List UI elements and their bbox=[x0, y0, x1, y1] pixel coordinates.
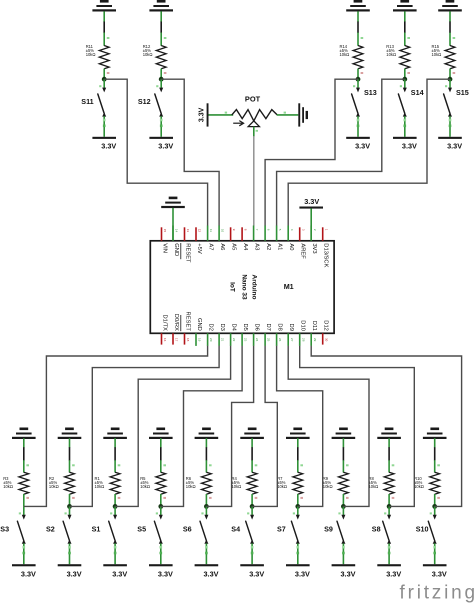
svg-text:21: 21 bbox=[221, 338, 225, 342]
svg-text:A0: A0 bbox=[288, 243, 294, 250]
svg-text:A1: A1 bbox=[276, 243, 282, 250]
svg-text:10kΩ: 10kΩ bbox=[143, 52, 153, 57]
svg-text:3.3V: 3.3V bbox=[402, 142, 417, 151]
svg-text:10kΩ: 10kΩ bbox=[186, 484, 196, 489]
svg-text:D5: D5 bbox=[242, 323, 248, 330]
svg-text:14: 14 bbox=[175, 229, 179, 233]
svg-text:11: 11 bbox=[209, 229, 213, 232]
svg-text:D0/RX: D0/RX bbox=[173, 314, 179, 331]
svg-text:3.3V: 3.3V bbox=[112, 569, 127, 578]
svg-text:10kΩ: 10kΩ bbox=[323, 484, 333, 489]
svg-text:IoT: IoT bbox=[228, 282, 235, 292]
svg-text:3V3: 3V3 bbox=[311, 243, 317, 253]
svg-text:S10: S10 bbox=[416, 524, 429, 533]
svg-text:10kΩ: 10kΩ bbox=[414, 484, 424, 489]
svg-text:S3: S3 bbox=[0, 524, 9, 533]
svg-text:S14: S14 bbox=[411, 88, 424, 97]
svg-text:fritzing: fritzing bbox=[400, 582, 474, 603]
svg-text:29: 29 bbox=[313, 338, 317, 342]
svg-text:10kΩ: 10kΩ bbox=[386, 52, 396, 57]
svg-text:27: 27 bbox=[290, 338, 294, 342]
svg-text:24: 24 bbox=[255, 338, 259, 342]
svg-text:D8: D8 bbox=[276, 323, 282, 330]
svg-text:S11: S11 bbox=[81, 97, 93, 106]
svg-text:AREF: AREF bbox=[299, 243, 305, 259]
svg-text:A7: A7 bbox=[207, 243, 213, 250]
svg-text:12: 12 bbox=[198, 229, 202, 233]
svg-text:10kΩ: 10kΩ bbox=[232, 484, 242, 489]
svg-text:+5V: +5V bbox=[196, 243, 202, 254]
svg-text:D12: D12 bbox=[322, 320, 328, 331]
svg-text:S4: S4 bbox=[231, 524, 240, 533]
svg-text:10kΩ: 10kΩ bbox=[86, 52, 96, 57]
svg-text:3.3V: 3.3V bbox=[203, 569, 218, 578]
svg-text:28: 28 bbox=[301, 338, 305, 342]
svg-text:10kΩ: 10kΩ bbox=[3, 484, 13, 489]
svg-text:S7: S7 bbox=[277, 524, 286, 533]
svg-text:S12: S12 bbox=[138, 97, 151, 106]
svg-text:10: 10 bbox=[221, 229, 225, 233]
svg-text:M1: M1 bbox=[284, 282, 294, 291]
svg-text:20: 20 bbox=[209, 338, 213, 342]
svg-text:3.3V: 3.3V bbox=[432, 569, 447, 578]
svg-text:D13/SCK: D13/SCK bbox=[322, 243, 328, 267]
svg-text:3.3V: 3.3V bbox=[295, 569, 310, 578]
svg-text:D10: D10 bbox=[299, 320, 305, 331]
svg-text:10kΩ: 10kΩ bbox=[95, 484, 105, 489]
svg-text:10kΩ: 10kΩ bbox=[140, 484, 150, 489]
svg-text:17: 17 bbox=[175, 338, 179, 342]
svg-text:D3: D3 bbox=[219, 324, 225, 331]
svg-text:A3: A3 bbox=[253, 243, 259, 250]
svg-text:3.3V: 3.3V bbox=[198, 107, 205, 122]
svg-text:23: 23 bbox=[244, 338, 248, 342]
svg-text:16: 16 bbox=[163, 338, 167, 342]
svg-text:3.3V: 3.3V bbox=[355, 142, 370, 151]
svg-text:A2: A2 bbox=[265, 243, 271, 250]
svg-text:S6: S6 bbox=[183, 524, 192, 533]
svg-text:GND: GND bbox=[196, 318, 202, 331]
svg-text:A4: A4 bbox=[242, 243, 248, 251]
svg-text:D2: D2 bbox=[207, 324, 213, 331]
svg-text:S8: S8 bbox=[372, 524, 381, 533]
svg-text:VIN: VIN bbox=[161, 243, 167, 253]
svg-text:18: 18 bbox=[186, 338, 190, 342]
svg-text:RESET: RESET bbox=[184, 243, 190, 263]
svg-text:3.3V: 3.3V bbox=[21, 569, 36, 578]
svg-text:D11: D11 bbox=[311, 321, 317, 331]
svg-text:A5: A5 bbox=[230, 243, 236, 250]
svg-text:S5: S5 bbox=[137, 524, 146, 533]
svg-text:22: 22 bbox=[232, 338, 236, 342]
svg-text:S9: S9 bbox=[324, 524, 333, 533]
svg-text:3.3V: 3.3V bbox=[447, 142, 462, 151]
svg-text:D9: D9 bbox=[288, 324, 294, 331]
svg-text:S2: S2 bbox=[46, 524, 55, 533]
svg-text:D4: D4 bbox=[230, 323, 236, 331]
svg-text:3.3V: 3.3V bbox=[158, 569, 173, 578]
svg-text:Arduino: Arduino bbox=[250, 275, 257, 300]
svg-text:RESET: RESET bbox=[184, 312, 190, 332]
svg-text:19: 19 bbox=[198, 338, 202, 342]
svg-text:3.3V: 3.3V bbox=[386, 569, 401, 578]
svg-text:30: 30 bbox=[324, 338, 328, 342]
svg-text:Nano 33: Nano 33 bbox=[240, 274, 247, 300]
svg-text:10kΩ: 10kΩ bbox=[277, 484, 287, 489]
svg-text:3.3V: 3.3V bbox=[158, 142, 173, 151]
svg-text:GND: GND bbox=[173, 243, 179, 256]
svg-text:S13: S13 bbox=[364, 88, 377, 97]
svg-text:A6: A6 bbox=[219, 243, 225, 250]
svg-text:D7: D7 bbox=[265, 323, 271, 330]
svg-text:13: 13 bbox=[186, 229, 190, 233]
svg-text:POT: POT bbox=[245, 94, 261, 103]
svg-text:10kΩ: 10kΩ bbox=[432, 52, 442, 57]
svg-text:3.3V: 3.3V bbox=[304, 197, 319, 206]
svg-text:S15: S15 bbox=[456, 88, 469, 97]
svg-text:D6: D6 bbox=[253, 323, 259, 330]
svg-text:10kΩ: 10kΩ bbox=[369, 484, 379, 489]
svg-text:10kΩ: 10kΩ bbox=[340, 52, 350, 57]
svg-text:26: 26 bbox=[278, 338, 282, 342]
svg-text:3.3V: 3.3V bbox=[67, 569, 82, 578]
svg-text:25: 25 bbox=[267, 338, 271, 342]
svg-text:3.3V: 3.3V bbox=[101, 142, 116, 151]
svg-text:15: 15 bbox=[163, 229, 167, 233]
svg-text:3.3V: 3.3V bbox=[340, 569, 355, 578]
svg-text:D1/TX: D1/TX bbox=[161, 314, 167, 331]
svg-text:3.3V: 3.3V bbox=[249, 569, 264, 578]
svg-text:10kΩ: 10kΩ bbox=[49, 484, 59, 489]
svg-text:S1: S1 bbox=[92, 524, 101, 533]
